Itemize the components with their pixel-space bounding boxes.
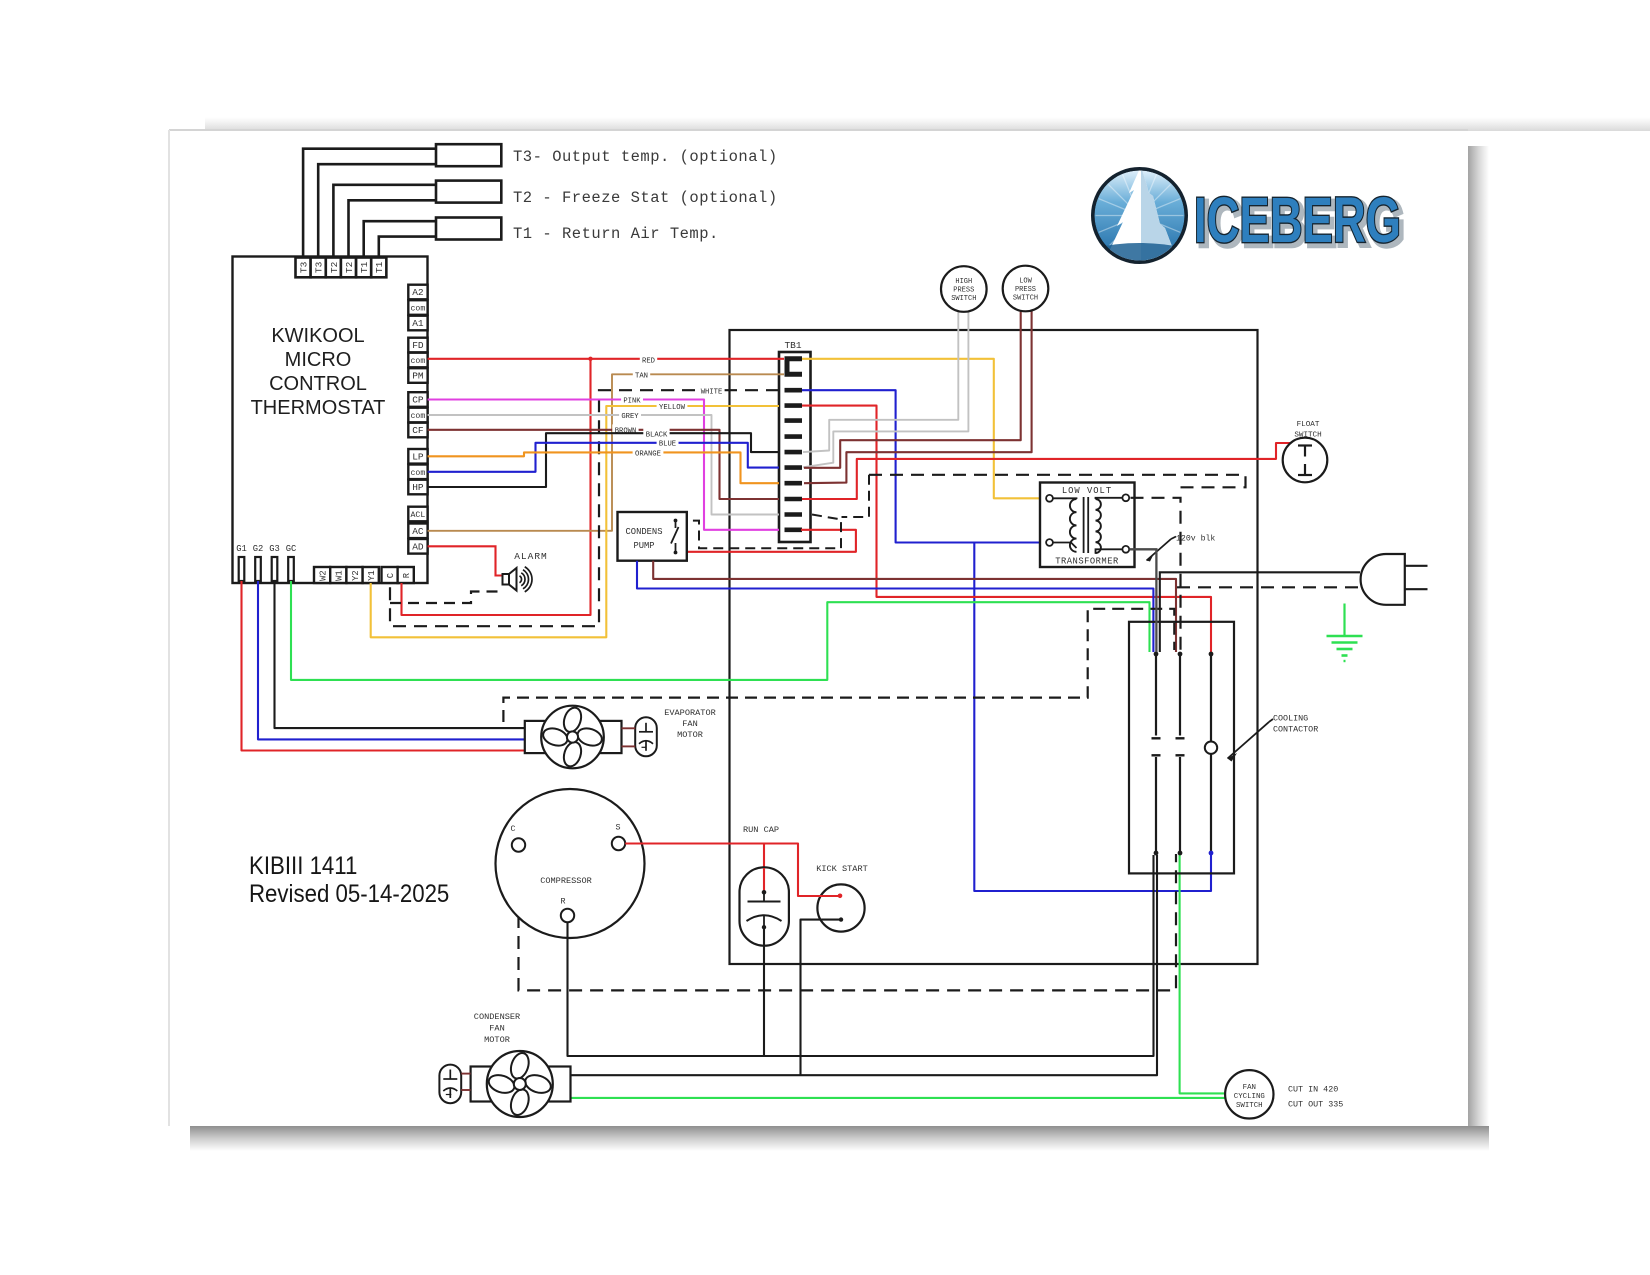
terminal T3 (top #2)	[311, 258, 326, 278]
wire sensor lead	[303, 149, 436, 258]
svg-text:R: R	[402, 572, 412, 578]
wire MAROON evap cap lead 1	[622, 727, 636, 729]
TB1 terminal 4	[785, 403, 803, 408]
switch S3 FLOAT SWITCH	[1283, 421, 1328, 482]
contactor coil pole 3	[1205, 652, 1217, 856]
svg-text:GC: GC	[286, 544, 297, 554]
svg-text:ACL: ACL	[411, 511, 426, 520]
label KIBIII 1411 revision	[249, 853, 449, 908]
svg-text:W2: W2	[318, 570, 328, 581]
thermostat U1 KWIKOOL MICRO CONTROL box	[233, 257, 428, 584]
svg-text:T3- Output temp. (optional): T3- Output temp. (optional)	[513, 148, 778, 166]
ground symbol GND	[1327, 604, 1363, 662]
TB1 terminal 8	[785, 465, 803, 470]
terminal G1	[239, 557, 245, 581]
svg-text:COMPRESSOR: COMPRESSOR	[540, 876, 592, 886]
wire 120v blk transformer lead	[1130, 549, 1157, 652]
wire dashed junction drop (dashed)	[842, 475, 870, 517]
wire RED com-TB1	[428, 358, 784, 360]
wire BLACK R-contactor	[568, 855, 1154, 1056]
TB1 terminal 5	[785, 418, 803, 423]
svg-text:TB1: TB1	[784, 340, 801, 351]
terminal PM	[408, 368, 427, 383]
wire PINK CP-TB1	[428, 400, 779, 530]
svg-text:Y2: Y2	[351, 570, 361, 581]
svg-text:T3: T3	[299, 261, 310, 273]
wire sensor lead	[379, 237, 436, 258]
svg-text:PM: PM	[412, 371, 424, 382]
wire MAROON pump-contactor	[653, 561, 1176, 652]
wire dashed alarm link	[390, 592, 502, 604]
svg-text:HP: HP	[412, 482, 424, 493]
svg-text:CYCLING: CYCLING	[1234, 1093, 1265, 1101]
wire dashed TB1-pump loop (dashed)	[687, 515, 841, 549]
condensate pump P1 CONDENS PUMP	[618, 512, 687, 561]
wire BLUE pump-contactor	[637, 561, 1153, 652]
svg-text:T1 - Return Air Temp.: T1 - Return Air Temp.	[513, 225, 719, 243]
svg-text:T3: T3	[314, 261, 325, 273]
svg-text:SWITCH: SWITCH	[1236, 1102, 1263, 1110]
wire sensor lead	[318, 164, 436, 257]
terminal LP	[408, 449, 427, 464]
wire MAROON low-press 2	[804, 311, 1032, 484]
capacitor M1 evaporator fan run cap	[635, 717, 657, 756]
TB1 terminal 6	[785, 434, 803, 439]
compressor M2	[496, 789, 645, 938]
relay K1 KICK START	[816, 864, 868, 932]
sensor plug T1	[436, 218, 501, 240]
terminal T2 (top #4)	[341, 258, 356, 278]
wire GREEN condenser motor-fan switch	[571, 1097, 1226, 1099]
logo ICEBERG wordmark	[1194, 184, 1405, 260]
wire BLUE TB1-transformer	[802, 390, 1046, 542]
terminal T1 (top #5)	[356, 258, 371, 278]
svg-text:T1: T1	[359, 261, 370, 273]
sensor plug T3	[436, 144, 501, 166]
wire dashed transformer TR-contactor (dashed)	[1131, 498, 1181, 652]
wire dashed to plug (dashed)	[1177, 586, 1360, 588]
label CUT IN / CUT OUT	[1288, 1085, 1343, 1110]
wire MAROON low-press 1	[804, 310, 1021, 468]
svg-text:CONDENS: CONDENS	[626, 527, 663, 537]
svg-text:FAN: FAN	[682, 719, 697, 729]
svg-text:120v blk: 120v blk	[1176, 534, 1215, 544]
svg-text:TAN: TAN	[635, 373, 648, 381]
svg-text:G2: G2	[253, 544, 264, 554]
wire BLACK kickstart-common	[801, 920, 842, 1076]
svg-text:Y1: Y1	[367, 570, 377, 581]
svg-text:ORANGE: ORANGE	[635, 450, 661, 458]
svg-text:PRESS: PRESS	[1015, 286, 1036, 294]
TB1 terminal 9	[785, 481, 803, 486]
alarm speaker LS1	[503, 551, 548, 592]
terminal Y2 (bottom)	[346, 567, 362, 583]
wire MAROON condenser cap lead 2	[461, 1089, 470, 1091]
svg-text:com: com	[411, 469, 426, 478]
terminal A2	[408, 285, 427, 300]
terminal HP	[408, 480, 427, 495]
svg-text:C: C	[510, 824, 515, 834]
svg-text:SWITCH: SWITCH	[951, 295, 976, 303]
svg-text:PRESS: PRESS	[953, 287, 974, 295]
svg-text:FAN: FAN	[1243, 1084, 1256, 1092]
wire RED TB1-float switch	[802, 443, 1292, 499]
svg-text:A1: A1	[412, 318, 424, 329]
svg-text:CUT IN 420: CUT IN 420	[1288, 1085, 1338, 1095]
wire TAN AC-TB1	[428, 374, 784, 531]
terminal ACL	[408, 507, 427, 522]
wire dashed compressor common (dashed)	[519, 852, 1177, 990]
svg-text:com: com	[411, 357, 426, 366]
svg-text:T1: T1	[374, 261, 385, 273]
logo ICEBERG badge	[1091, 166, 1188, 264]
terminal G3	[272, 557, 278, 581]
svg-text:RUN CAP: RUN CAP	[743, 825, 779, 835]
svg-text:FLOAT: FLOAT	[1297, 421, 1320, 429]
label BROWN	[612, 424, 638, 434]
terminal C (bottom)	[382, 567, 398, 583]
svg-text:W1: W1	[335, 570, 345, 581]
svg-text:MOTOR: MOTOR	[677, 730, 703, 740]
svg-text:MOTOR: MOTOR	[484, 1035, 510, 1045]
label RED	[640, 354, 657, 364]
terminal AD	[408, 539, 427, 554]
svg-text:S: S	[615, 823, 620, 833]
svg-text:LOW: LOW	[1019, 278, 1032, 286]
svg-text:CP: CP	[412, 395, 424, 406]
wire RED S-runcap-kickstart	[625, 844, 839, 897]
svg-text:A2: A2	[412, 287, 424, 298]
svg-text:THERMOSTAT: THERMOSTAT	[251, 397, 386, 419]
plug P2 power plug	[1361, 554, 1428, 605]
wire GREEN GC-contactor	[291, 581, 1150, 680]
wire BROWN CF-TB1	[428, 430, 779, 499]
wire MAROON evap cap lead 2	[622, 745, 636, 747]
TB1 terminal 10	[785, 497, 803, 502]
contactor K2 COOLING CONTACTOR box	[1129, 622, 1234, 874]
contactor pole 2	[1176, 652, 1185, 856]
terminal CF	[408, 423, 427, 438]
wire ORANGE LP-TB1	[428, 452, 779, 483]
svg-text:PINK: PINK	[623, 398, 641, 406]
wire dashed top run (dashed)	[869, 475, 1246, 488]
terminal FD	[408, 338, 427, 353]
svg-text:ICEBERG: ICEBERG	[1194, 184, 1401, 256]
svg-text:KICK START: KICK START	[816, 864, 868, 874]
svg-text:RED: RED	[642, 358, 655, 366]
motor M1 evaporator fan body	[525, 721, 622, 753]
wire BLACK runcap-common	[763, 929, 765, 1056]
label GREY	[619, 410, 641, 420]
svg-text:CUT OUT 335: CUT OUT 335	[1288, 1100, 1343, 1110]
svg-text:R: R	[560, 897, 565, 907]
svg-text:LP: LP	[412, 452, 424, 463]
TB1 terminal 3	[785, 388, 803, 393]
svg-text:com: com	[411, 412, 426, 421]
svg-text:T2: T2	[329, 261, 340, 273]
svg-text:BROWN: BROWN	[615, 428, 637, 436]
svg-text:KIBIII 1411: KIBIII 1411	[249, 853, 357, 880]
outer enclosure box	[730, 330, 1258, 964]
svg-text:FAN: FAN	[489, 1024, 504, 1034]
wire RED runcap terminal	[763, 868, 765, 892]
terminal T1 (top #6)	[371, 258, 386, 278]
svg-text:WHITE: WHITE	[701, 388, 723, 396]
label 120v blk leader	[1147, 539, 1172, 561]
svg-text:CONTROL: CONTROL	[269, 373, 367, 395]
label EVAPORATOR FAN MOTOR	[664, 708, 716, 740]
terminal GC	[288, 557, 294, 581]
TB1 terminal 12	[785, 527, 803, 532]
svg-text:AC: AC	[412, 526, 424, 537]
svg-text:ALARM: ALARM	[514, 551, 548, 562]
wire GREEN contactor-fan switch	[1180, 854, 1226, 1093]
svg-text:FD: FD	[412, 340, 424, 351]
svg-text:YELLOW: YELLOW	[659, 404, 686, 412]
wire BLACK condenser-contactor	[571, 855, 1158, 1075]
label TAN	[633, 369, 650, 379]
terminal com	[408, 408, 427, 423]
page sheet	[169, 130, 1468, 1126]
switch S2 LOW PRESS SWITCH	[1003, 266, 1049, 312]
terminal com	[408, 300, 427, 315]
transformer T1 LOW VOLT	[1040, 483, 1135, 568]
terminal W1 (bottom)	[330, 567, 346, 583]
terminal G2	[255, 557, 261, 581]
svg-text:CONTACTOR: CONTACTOR	[1273, 725, 1318, 735]
wire BLUE branch pole3	[974, 543, 1211, 892]
motor M3 condenser fan	[487, 1051, 553, 1117]
wire RED AD-alarm	[428, 546, 503, 575]
terminal A1	[408, 316, 427, 331]
svg-text:CONDENSER: CONDENSER	[474, 1012, 520, 1022]
wire RED TB1-pump	[687, 530, 856, 552]
wire MAROON condenser cap lead 1	[461, 1073, 470, 1075]
svg-text:MICRO: MICRO	[285, 349, 352, 371]
svg-text:PUMP: PUMP	[633, 541, 654, 551]
svg-text:AD: AD	[412, 542, 424, 553]
wire YELLOW TB1-transformer	[802, 359, 1046, 499]
wire RED G1-evap motor	[242, 581, 526, 751]
wire sensor lead	[364, 221, 436, 257]
wire BLUE com-TB1	[428, 443, 779, 472]
wire GREY high-press 2	[803, 311, 968, 468]
label PINK	[621, 395, 643, 405]
wire dashed evap loop (dashed)	[503, 609, 1174, 722]
svg-text:T2: T2	[344, 261, 355, 273]
label COOLING CONTACTOR	[1228, 714, 1319, 762]
svg-text:Revised 05-14-2025: Revised 05-14-2025	[249, 881, 449, 908]
wire BLACK G3-evap motor	[275, 581, 526, 728]
svg-text:G1: G1	[236, 544, 247, 554]
svg-text:EVAPORATOR: EVAPORATOR	[664, 708, 716, 718]
svg-text:G3: G3	[269, 544, 280, 554]
label ORANGE	[633, 447, 664, 457]
wire sensor lead	[349, 200, 437, 257]
motor M1 evaporator fan fan	[541, 706, 604, 769]
contactor pole 1	[1152, 652, 1161, 856]
svg-text:HIGH: HIGH	[955, 278, 972, 286]
terminal com	[408, 465, 427, 480]
wire RED branch to R	[402, 359, 591, 615]
wire RED kickstart terminal	[819, 895, 840, 897]
wire YELLOW Y1-TB1	[371, 406, 779, 637]
svg-text:com: com	[411, 305, 426, 314]
svg-text:LOW VOLT: LOW VOLT	[1062, 486, 1112, 496]
terminal T2 (top #3)	[326, 258, 341, 278]
terminal R (bottom)	[398, 567, 414, 583]
terminal Y1 (bottom)	[363, 567, 379, 583]
terminal com	[408, 353, 427, 368]
svg-text:TRANSFORMER: TRANSFORMER	[1055, 557, 1119, 567]
TB1 terminal 11	[785, 512, 803, 517]
terminal CP	[408, 392, 427, 407]
capacitor C1 RUN CAP	[740, 825, 789, 946]
wire BLACK line to plug	[1160, 572, 1360, 652]
wire sensor lead	[333, 185, 436, 258]
terminal W2 (bottom)	[314, 567, 330, 583]
label BLUE	[657, 438, 679, 448]
switch S1 HIGH PRESS SWITCH	[941, 266, 987, 312]
capacitor C2 condenser cap	[439, 1065, 461, 1104]
wire WHITE (dashed)	[390, 390, 779, 626]
label YELLOW	[657, 401, 688, 411]
svg-text:KWIKOOL: KWIKOOL	[271, 325, 364, 347]
svg-text:SWITCH: SWITCH	[1013, 295, 1038, 303]
wire GREY high-press 1	[803, 310, 958, 452]
svg-text:T2 - Freeze Stat (optional): T2 - Freeze Stat (optional)	[513, 189, 778, 207]
svg-text:C: C	[386, 573, 396, 578]
svg-text:CF: CF	[412, 425, 424, 436]
TB1 terminal 1-2 C-shape	[787, 359, 802, 375]
terminal AC	[408, 524, 427, 539]
label CONDENSER FAN MOTOR	[474, 1012, 520, 1045]
sensor plug T2	[436, 181, 501, 203]
label BLACK	[643, 428, 669, 438]
wire BLACK HP-TB1	[428, 433, 779, 487]
svg-text:COOLING: COOLING	[1273, 714, 1308, 724]
TB1 terminal 7	[785, 450, 803, 455]
motor M3 condenser fan body	[471, 1067, 571, 1102]
wire GREY com-TB1	[428, 415, 779, 515]
wire RED runcap branch	[763, 844, 765, 892]
wire BLUE G2-evap motor	[258, 581, 525, 739]
svg-text:SWITCH: SWITCH	[1294, 432, 1321, 440]
switch S4 FAN CYCLING SWITCH	[1225, 1070, 1273, 1118]
terminal T3 (top #1)	[296, 258, 311, 278]
wire RED TB1-contactor coil	[802, 406, 1211, 652]
svg-text:GREY: GREY	[621, 413, 639, 421]
label WHITE	[698, 385, 724, 395]
terminal strip TB1	[779, 352, 811, 542]
